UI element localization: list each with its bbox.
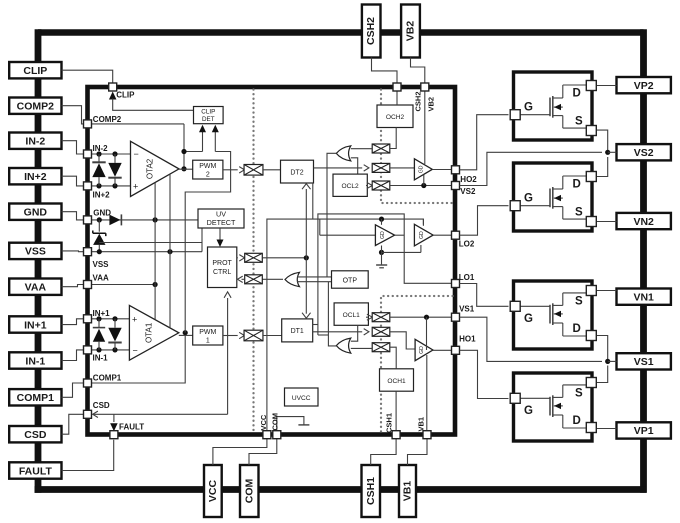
svg-text:COMP1: COMP1 — [17, 392, 55, 404]
IC pin IN-1 — [84, 346, 109, 363]
IC pin HO1 — [452, 335, 477, 355]
wire VB2 pin to GD2 — [424, 91, 426, 164]
level shifter PWM1 — [244, 330, 263, 341]
svg-text:GD: GD — [419, 165, 425, 173]
IC pin GND — [84, 208, 112, 224]
wire COM pin to COM box — [249, 439, 277, 466]
diode on GND rail — [109, 214, 121, 225]
right pin box VP1 — [617, 422, 671, 438]
svg-text:IN-1: IN-1 — [93, 354, 109, 363]
block OCH1 — [380, 369, 414, 391]
driver GD T1 — [375, 225, 394, 246]
wire LO2 to Q2 gate — [460, 206, 509, 236]
level shifter HO1 — [372, 327, 390, 336]
svg-text:S: S — [575, 207, 583, 219]
wire Q2 drain to VS2 node — [597, 157, 608, 177]
left pin box CSD — [9, 426, 61, 442]
outer thick supply bus frame — [35, 29, 647, 493]
IC pin VS2 — [452, 182, 476, 197]
block OCH2 — [377, 105, 413, 128]
wire GD2 to HO2 pin — [432, 169, 451, 171]
IC pin CSH1 bottom — [392, 431, 400, 439]
svg-text:VCC: VCC — [259, 414, 268, 430]
svg-text:OCH1: OCH1 — [387, 378, 406, 385]
wire VS2 net — [390, 175, 452, 189]
junction dots IN+1 row — [96, 316, 117, 321]
svg-text:CSH1: CSH1 — [365, 477, 377, 505]
svg-text:DETECT: DETECT — [207, 218, 236, 227]
svg-text:FAULT: FAULT — [119, 423, 144, 432]
rail LO1 over drivers — [318, 214, 452, 325]
wire to GD1 — [390, 332, 415, 349]
wire fault OR to level shifter — [262, 278, 283, 280]
wire OCH1 shifter to OCH1 — [390, 347, 396, 369]
rotated label VCC — [259, 414, 268, 430]
wire OTA2 out to PWM2 — [179, 168, 193, 170]
svg-text:CSD: CSD — [93, 401, 110, 410]
bottom pin box VB1 — [399, 465, 416, 517]
wire VS1 pin to VS1 node — [460, 317, 603, 361]
svg-text:G: G — [524, 405, 533, 417]
gate driver GD1 — [415, 339, 433, 360]
wire GND rail to UV DETECT — [84, 219, 199, 221]
left pin box IN-2 — [9, 133, 61, 149]
svg-text:PWM: PWM — [199, 163, 216, 170]
gate driver GD2 — [414, 159, 432, 180]
block OCL2 — [333, 174, 367, 196]
IC pin VB2 — [421, 83, 429, 91]
rotated label VB1 — [416, 417, 425, 432]
MOSFET block Q2 (ch2 low) — [510, 163, 596, 231]
svg-text:CTRL: CTRL — [213, 269, 231, 276]
svg-text:S: S — [575, 296, 583, 308]
wire T2 out to LO2 pin — [433, 234, 451, 236]
svg-text:OTA1: OTA1 — [145, 322, 154, 343]
op-amp OTA2 — [131, 141, 180, 196]
svg-text:G: G — [524, 193, 533, 205]
junction dots IN-2 row — [96, 151, 117, 156]
bottom pin box VCC — [204, 465, 222, 517]
svg-text:−: − — [134, 149, 139, 159]
wire VAA rail — [84, 284, 156, 286]
svg-text:HO1: HO1 — [459, 335, 476, 344]
wire level shifter to DT1 — [263, 335, 282, 337]
svg-text:VS2: VS2 — [634, 147, 654, 159]
wire IN+1 to OTA1 plus — [84, 318, 130, 320]
wire IN-1 box to IN-1 pin — [62, 350, 84, 361]
wire VSS box to VSS pin — [62, 250, 84, 253]
wire IN+2 box to IN+2 pin — [62, 176, 84, 186]
svg-text:DT1: DT1 — [291, 328, 304, 335]
MOSFET block Q1 (ch2 high) — [510, 72, 596, 140]
svg-text:GND: GND — [24, 206, 48, 218]
wire level shifter to DT2 — [263, 169, 281, 171]
wire VB1 pin to GD1 — [426, 355, 428, 431]
left pin box IN+2 — [9, 168, 61, 184]
wire VS2 pin to VS2 node — [460, 152, 603, 185]
svg-text:CLIP: CLIP — [116, 91, 135, 100]
svg-text:D: D — [573, 88, 581, 100]
block UVCC — [285, 388, 319, 406]
wire VSS rail — [84, 251, 203, 253]
wire OCL1 to OR ch1 — [351, 325, 358, 341]
svg-text:G: G — [524, 102, 533, 114]
wire Q1 drain to VP2 — [597, 85, 617, 87]
svg-text:OTA2: OTA2 — [145, 158, 154, 179]
svg-text:D: D — [573, 323, 581, 335]
rotated label CSH2 — [413, 91, 422, 111]
ground symbol under T1 — [376, 265, 387, 268]
svg-text:IN-1: IN-1 — [25, 355, 45, 367]
clamp diode D2a (IN1 up) — [93, 319, 105, 350]
wire ch2 fault down to OR — [327, 153, 336, 277]
svg-text:IN+1: IN+1 — [24, 319, 47, 331]
wire IN-2 box to IN-2 pin — [62, 141, 84, 154]
dotted boundary ch2 high-side — [381, 90, 454, 204]
svg-text:LO1: LO1 — [459, 273, 475, 282]
wire VB1 pin to VB1 box — [408, 439, 428, 466]
clamp diode D2b (IN1 down) — [108, 319, 121, 350]
wire GD1 to HO1 pin — [433, 349, 452, 351]
level shifter OCH2 — [372, 144, 390, 153]
IC pin VCC bottom — [263, 431, 271, 439]
svg-text:VB1: VB1 — [416, 417, 425, 432]
wire VS1 net — [390, 315, 452, 350]
svg-text:PROT: PROT — [212, 260, 232, 267]
IC pin VAA — [84, 274, 110, 289]
svg-text:S: S — [575, 116, 583, 128]
wire OCL1 to VS1 level shifter — [366, 314, 372, 320]
MOSFET block Q3 (ch1 low) — [510, 281, 596, 349]
wire Q3 drain to VS1 node — [597, 336, 617, 365]
wire DT2 to HO2 level shifter — [314, 165, 369, 171]
wire PWM2 to level shifter — [223, 167, 245, 173]
level shifter VS2 — [372, 181, 390, 190]
svg-text:OCL2: OCL2 — [341, 183, 359, 190]
dotted boundary low-side (VCC/COM domain) — [252, 90, 254, 432]
left pin box COMP1 — [9, 389, 61, 405]
wire CLIP pin internal — [109, 92, 194, 111]
IC pin IN+2 — [84, 182, 111, 200]
svg-text:VAA: VAA — [25, 281, 47, 293]
svg-text:+: + — [132, 314, 137, 324]
svg-text:IN+2: IN+2 — [93, 191, 111, 200]
wire VB2 box to VB2 pin — [411, 58, 425, 84]
wire PWM1 to level shifter — [223, 332, 245, 338]
svg-text:DET: DET — [202, 116, 215, 123]
svg-text:LO2: LO2 — [459, 240, 475, 249]
top pin box CSH2 — [362, 5, 381, 58]
left pin box COMP2 — [9, 98, 61, 114]
IC pin VB1 bottom — [423, 431, 431, 439]
svg-text:OTP: OTP — [343, 278, 358, 285]
COM internal ground — [277, 417, 310, 432]
svg-text:VSS: VSS — [93, 260, 110, 269]
IC body outline — [88, 87, 456, 435]
clamp diode D1a (IN2 up) — [92, 154, 105, 186]
svg-text:COMP2: COMP2 — [17, 100, 55, 112]
svg-text:VS1: VS1 — [459, 305, 475, 314]
left pin box VAA — [9, 279, 61, 295]
right pin box VN1 — [617, 289, 671, 305]
svg-text:IN-2: IN-2 — [25, 135, 45, 147]
junction dot VAA rail — [153, 282, 158, 287]
wire CSH2 box to CSH2 pin — [372, 58, 398, 84]
wire VCC pin to VCC box — [213, 439, 267, 466]
wire sense line to UV — [99, 242, 202, 244]
wire LO1 to Q3 gate — [460, 284, 509, 307]
rotated label COM — [270, 413, 279, 431]
right pin box VS1 — [617, 353, 671, 369]
bottom pin box COM — [240, 465, 259, 517]
svg-text:OCH2: OCH2 — [386, 114, 405, 121]
svg-text:COM: COM — [270, 413, 279, 431]
wire COMP2 box to COMP2 pin — [62, 106, 84, 124]
wire COMP1 box to COMP1 pin — [62, 383, 84, 397]
bottom pin box CSH1 — [362, 465, 381, 517]
svg-text:GD: GD — [380, 231, 386, 239]
wire IN-2 to OTA2 minus — [84, 153, 131, 155]
svg-text:G: G — [524, 313, 533, 325]
zener diode GND to VSS — [93, 220, 106, 252]
block CLIP DET — [194, 107, 224, 124]
IC pin CLIP — [109, 83, 135, 100]
level shifter fault — [245, 275, 263, 284]
svg-text:HO2: HO2 — [460, 175, 477, 184]
level shifter HO2 — [372, 163, 390, 172]
left pin box IN-1 — [9, 352, 61, 368]
MOSFET block Q4 (ch1 high) — [510, 373, 596, 441]
wire OCL2 to VS2 level shifter — [366, 183, 372, 189]
wire level shifter to OR ch2 — [351, 148, 372, 150]
wire CLIP box to CLIP pin — [62, 70, 113, 83]
arrow into CLIP DET from OTA1 sense — [185, 125, 230, 333]
op-amp OTA1 — [129, 305, 178, 360]
arrow fault into PROT — [238, 276, 245, 282]
wire Q3 source to VN1 — [597, 290, 617, 292]
wire IN+1 box to IN+1 pin — [62, 319, 84, 325]
wire OR input from ch2 fault — [297, 276, 332, 278]
left pin box CLIP — [9, 62, 61, 78]
T2 taps — [382, 219, 424, 252]
level shifter VS1 — [372, 313, 390, 322]
svg-text:VS2: VS2 — [460, 187, 476, 196]
svg-text:VB2: VB2 — [405, 21, 417, 42]
wire Q1 source to VS2 node — [597, 130, 617, 155]
svg-text:CLIP: CLIP — [23, 65, 47, 77]
svg-text:S: S — [575, 388, 583, 400]
rotated label CSH1 — [384, 413, 393, 433]
svg-text:VSS: VSS — [25, 246, 46, 258]
rotated label VB2 — [427, 97, 436, 112]
arrow UV DETECT to PROT CTRL — [217, 228, 224, 247]
block OTP — [332, 271, 369, 288]
svg-text:VB2: VB2 — [427, 97, 436, 112]
wire shutdown to DT2/DT1 — [262, 184, 310, 319]
wire OR input from OTP / ch1 fault — [297, 281, 332, 283]
wire DT2 bottom to rail — [312, 183, 314, 219]
svg-text:2: 2 — [206, 172, 210, 179]
block PWM 2 — [193, 160, 223, 179]
svg-text:COMP2: COMP2 — [93, 115, 122, 124]
wire IN+2 to OTA2 plus — [84, 185, 131, 187]
wire OCL2 to OR ch2 — [351, 158, 358, 174]
IC pin VSS — [84, 248, 110, 269]
block DT2 — [281, 160, 314, 183]
svg-text:FAULT: FAULT — [19, 465, 53, 477]
svg-text:IN+2: IN+2 — [24, 171, 47, 183]
junction dots VSS rail — [97, 249, 173, 254]
arrow into CLIP DET from OTA2 — [184, 125, 206, 152]
left pin box IN+1 — [9, 316, 61, 332]
driver GD T2 — [414, 224, 433, 246]
svg-text:VCC: VCC — [207, 479, 219, 502]
IC pin LO1 — [452, 273, 475, 287]
svg-text:PWM: PWM — [199, 329, 216, 336]
svg-text:COMP1: COMP1 — [93, 374, 122, 383]
svg-text:VN2: VN2 — [633, 216, 654, 228]
svg-text:GD: GD — [419, 231, 425, 239]
wire to GD2 — [390, 167, 415, 169]
IC pin FAULT — [110, 423, 144, 439]
wire COMP1 feedback — [84, 330, 188, 383]
rail VSS vertical (OTA supplies) — [169, 174, 171, 328]
wire OCH1 to CSH1 pin — [395, 391, 397, 430]
T1 supply taps — [379, 217, 384, 265]
wire CSD box to CSD pin — [62, 414, 84, 434]
wire HO2 to Q1 gate — [460, 115, 509, 170]
wire GND box to GND pin — [62, 212, 84, 220]
svg-text:VAA: VAA — [93, 274, 110, 283]
clamp diode D1b (IN2 down) — [108, 154, 121, 186]
wire FAULT box to FAULT pin — [62, 440, 114, 471]
dotted boundary ch1 high-side — [381, 296, 454, 432]
wire OR ch1 to OCH1 shifter — [351, 347, 372, 349]
wire ch1 fault branch to DT1 side — [318, 325, 329, 336]
left pin box GND — [9, 204, 61, 220]
block DT1 — [282, 319, 313, 342]
wire OCH2 to level shifter — [390, 128, 396, 149]
svg-text:D: D — [573, 179, 581, 191]
block PWM 1 — [193, 326, 223, 345]
wire Q4 source to VS1 node — [597, 366, 608, 383]
wire DT1 to rail LO1 — [313, 324, 318, 326]
svg-text:VP2: VP2 — [634, 80, 654, 92]
svg-text:IN+1: IN+1 — [93, 309, 111, 318]
block PROT CTRL — [208, 247, 237, 288]
wire DT1 to HO1 level shifter — [313, 329, 369, 335]
IC pin LO2 — [452, 231, 475, 249]
IC pin COM bottom — [273, 431, 281, 439]
top pin box VB2 — [401, 5, 420, 58]
wire ch1 fault up to OR — [328, 282, 336, 346]
svg-text:GND: GND — [93, 208, 111, 217]
vertical COMP2/OTA2 output link — [181, 124, 186, 171]
IC pin VS1 — [452, 305, 475, 322]
svg-text:VS1: VS1 — [634, 356, 654, 368]
wire LO2 signal into T1 — [320, 219, 376, 235]
wire HO1 to Q4 gate — [460, 350, 509, 398]
IC pin COMP1 — [84, 374, 122, 387]
svg-text:IN-2: IN-2 — [93, 144, 109, 153]
svg-text:DT2: DT2 — [290, 170, 303, 177]
rail VAA vertical (OTA supplies) — [154, 183, 156, 320]
OR gate ch2 fault — [336, 146, 351, 161]
svg-text:UVCC: UVCC — [292, 395, 311, 402]
right pin box VN2 — [617, 213, 671, 229]
svg-text:VP1: VP1 — [634, 425, 654, 437]
svg-text:1: 1 — [206, 338, 210, 345]
block OCL1 — [334, 303, 368, 325]
IC pin COMP2 — [84, 115, 122, 128]
svg-text:VB1: VB1 — [402, 481, 414, 502]
svg-text:+: + — [133, 182, 138, 192]
wire COMP2 net — [84, 123, 185, 125]
level shifter OCH1 — [372, 343, 390, 352]
svg-text:COM: COM — [243, 479, 255, 504]
left pin box FAULT — [9, 462, 61, 478]
junction dots IN-1 row — [96, 347, 117, 352]
svg-text:CSH1: CSH1 — [384, 413, 393, 433]
OR gate ch1 fault — [336, 338, 351, 353]
block UV DETECT — [198, 209, 244, 228]
wire CSD net to PROT — [93, 292, 231, 418]
svg-text:VN1: VN1 — [633, 291, 654, 303]
svg-text:−: − — [133, 345, 138, 355]
wire T1 out — [395, 234, 405, 236]
IC pin IN-2 — [84, 144, 109, 158]
svg-text:D: D — [573, 415, 581, 427]
junction dots IN+2 row — [96, 183, 117, 188]
svg-text:CSD: CSD — [24, 429, 47, 441]
wire CSH2 pin to OCH2 — [396, 91, 398, 105]
VCC internal rail — [267, 219, 424, 432]
svg-text:OCL1: OCL1 — [343, 312, 361, 319]
svg-text:CSH2: CSH2 — [413, 91, 422, 111]
wire IN-1 to OTA1 minus — [84, 349, 130, 351]
svg-text:CSH2: CSH2 — [365, 17, 377, 45]
junction dots GND rail — [97, 217, 158, 222]
svg-text:GD: GD — [419, 346, 425, 354]
IC pin IN+1 — [84, 309, 111, 323]
level shifter PWM2 — [244, 165, 263, 176]
level shifter shutdown — [245, 253, 263, 262]
wire VAA box to VAA pin — [62, 285, 84, 287]
IC pin CSH2 — [393, 83, 401, 91]
fault OR gate — [285, 272, 300, 286]
IC pin CSD — [84, 401, 110, 418]
wire CSH1 pin to CSH1 box — [371, 439, 396, 466]
wire OTA1 out to PWM1 — [179, 334, 193, 336]
wire VSS to UV DETECT bottom — [201, 228, 203, 252]
left pin box VSS — [9, 243, 61, 259]
wire Q4 drain to VP1 — [597, 428, 617, 430]
wire PROT to shutdown level shifter — [237, 255, 245, 261]
right pin box VS2 — [617, 144, 671, 160]
svg-text:CLIP: CLIP — [201, 109, 215, 116]
right pin box VP2 — [617, 77, 671, 93]
IC pin HO2 — [452, 166, 478, 184]
wire Q2 source to VN2 — [597, 221, 617, 223]
wire FAULT pin internal — [110, 414, 118, 431]
